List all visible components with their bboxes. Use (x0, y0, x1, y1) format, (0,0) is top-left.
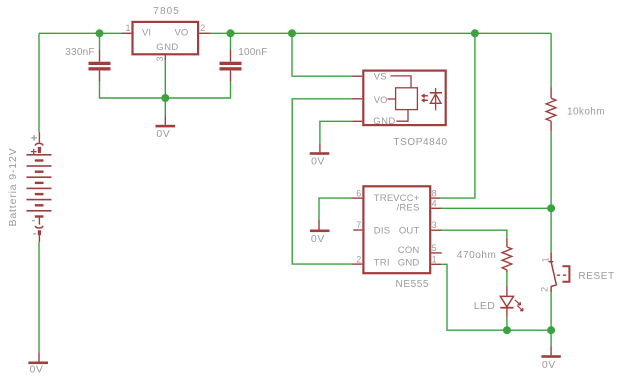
junction node capacitor ground (161, 94, 169, 102)
svg-text:1: 1 (125, 23, 130, 33)
svg-text:2: 2 (356, 254, 361, 264)
battery - marks grey (32, 221, 36, 234)
svg-text:3: 3 (155, 56, 165, 61)
regulator IC1 7805 (121, 22, 210, 60)
battery + mark grey (31, 135, 37, 141)
svg-text:0V: 0V (311, 155, 325, 167)
wire NE555 TRE to 0V (319, 198, 352, 219)
wire NE555 OUT to 470ohm (442, 230, 507, 238)
svg-text:VO: VO (175, 28, 189, 39)
wire reset switch to bottom bus (550, 292, 552, 330)
svg-text:7805: 7805 (153, 6, 180, 17)
svg-text:CON: CON (398, 245, 420, 256)
svg-text:VS: VS (374, 72, 387, 83)
svg-text:10kohm: 10kohm (567, 107, 605, 118)
wire LED cathode down (506, 317, 508, 331)
ground 0V (battery bottom left) (38, 352, 40, 361)
wire VS net to TSOP (292, 33, 352, 76)
capacitor 330nF (99, 49, 101, 81)
ground 0V (TSOP) (319, 143, 321, 152)
battery + mark red (31, 149, 37, 155)
svg-text:4: 4 (432, 199, 437, 209)
LED emission arrows (515, 300, 523, 311)
svg-text:DIS: DIS (374, 226, 390, 237)
svg-text:LED: LED (474, 300, 495, 312)
pushbutton S1 RESET (549, 252, 557, 292)
svg-text:0V: 0V (156, 128, 170, 140)
svg-text:RESET: RESET (578, 271, 614, 282)
svg-text:7: 7 (356, 220, 361, 230)
svg-text:OUT: OUT (399, 226, 420, 237)
resistor 470ohm (502, 238, 512, 272)
junction node pin8 riser tap (471, 29, 479, 37)
wire battery + rail (left vertical) (38, 33, 40, 132)
svg-text:3: 3 (432, 220, 437, 230)
capacitor 100nF (230, 49, 232, 81)
svg-text:2: 2 (200, 23, 205, 33)
wire 100nF top tap (230, 33, 232, 49)
wire capacitor ground bus (100, 82, 231, 98)
battery BAT1 Batteria 9-12V (35, 132, 43, 242)
svg-text:Batteria 9-12V: Batteria 9-12V (7, 147, 19, 226)
TSOP photodiode with incoming arrows (422, 88, 442, 110)
svg-text:2: 2 (540, 287, 550, 292)
IR receiver U1 TSOP4840 (352, 71, 446, 126)
wire NE555 VCC+ pin8 riser (441, 33, 475, 198)
svg-text:0V: 0V (30, 364, 44, 376)
wire bottom bus to 0V (550, 330, 552, 346)
wire top +9V rail left segment (39, 32, 121, 34)
svg-text:100nF: 100nF (238, 47, 267, 58)
svg-text:/RES: /RES (397, 202, 420, 213)
svg-text:TRE: TRE (374, 193, 394, 204)
svg-text:VI: VI (142, 28, 151, 39)
wire TSOP GND to 0V (320, 121, 353, 143)
wire NE555 /RES to reset column (442, 207, 551, 209)
svg-text:1: 1 (540, 257, 550, 262)
svg-text:5: 5 (432, 243, 437, 253)
junction node 100nF tap (227, 29, 235, 37)
svg-text:6: 6 (356, 188, 361, 198)
ground 0V (7805) (164, 116, 166, 125)
ground 0V (bottom right) (550, 346, 552, 355)
svg-text:1: 1 (432, 254, 437, 264)
svg-text:GND: GND (373, 116, 395, 127)
junction node VS tap (288, 29, 296, 37)
resistor 10kohm (546, 87, 556, 131)
svg-text:TSOP4840: TSOP4840 (393, 137, 447, 148)
junction node /RES reset column (547, 204, 555, 212)
wire NE555 GND pin1 to bottom bus (441, 264, 551, 330)
wire battery - to ground (left vertical lower) (38, 242, 40, 352)
svg-text:TRI: TRI (374, 257, 390, 268)
svg-text:NE555: NE555 (396, 279, 430, 290)
svg-text:470ohm: 470ohm (457, 250, 496, 261)
junction node LED bottom (503, 326, 511, 334)
svg-text:GND: GND (156, 42, 178, 53)
ground 0V (NE555 TRE) (318, 219, 320, 229)
svg-text:GND: GND (398, 257, 420, 268)
wire 10kohm to reset switch (550, 131, 552, 252)
diode LED1 (500, 286, 513, 316)
wire 330nF top tap (99, 33, 101, 49)
svg-text:8: 8 (432, 188, 437, 198)
svg-text:0V: 0V (542, 359, 556, 371)
junction node switch bottom (547, 326, 555, 334)
wire right column above 10kohm (550, 33, 552, 87)
junction node 330nF tap (96, 29, 104, 37)
wire 7805 GND to 0V (164, 60, 166, 116)
svg-text:VO: VO (374, 95, 388, 106)
timer IC2 NE555 (352, 186, 442, 273)
svg-text:330nF: 330nF (65, 47, 94, 58)
pushbutton actuator bracket (557, 266, 570, 282)
wire top +5V rail right of 7805 (211, 32, 551, 34)
wire 470ohm to LED (506, 272, 508, 286)
svg-text:0V: 0V (311, 233, 325, 245)
wire VO to TRI net (292, 99, 352, 264)
